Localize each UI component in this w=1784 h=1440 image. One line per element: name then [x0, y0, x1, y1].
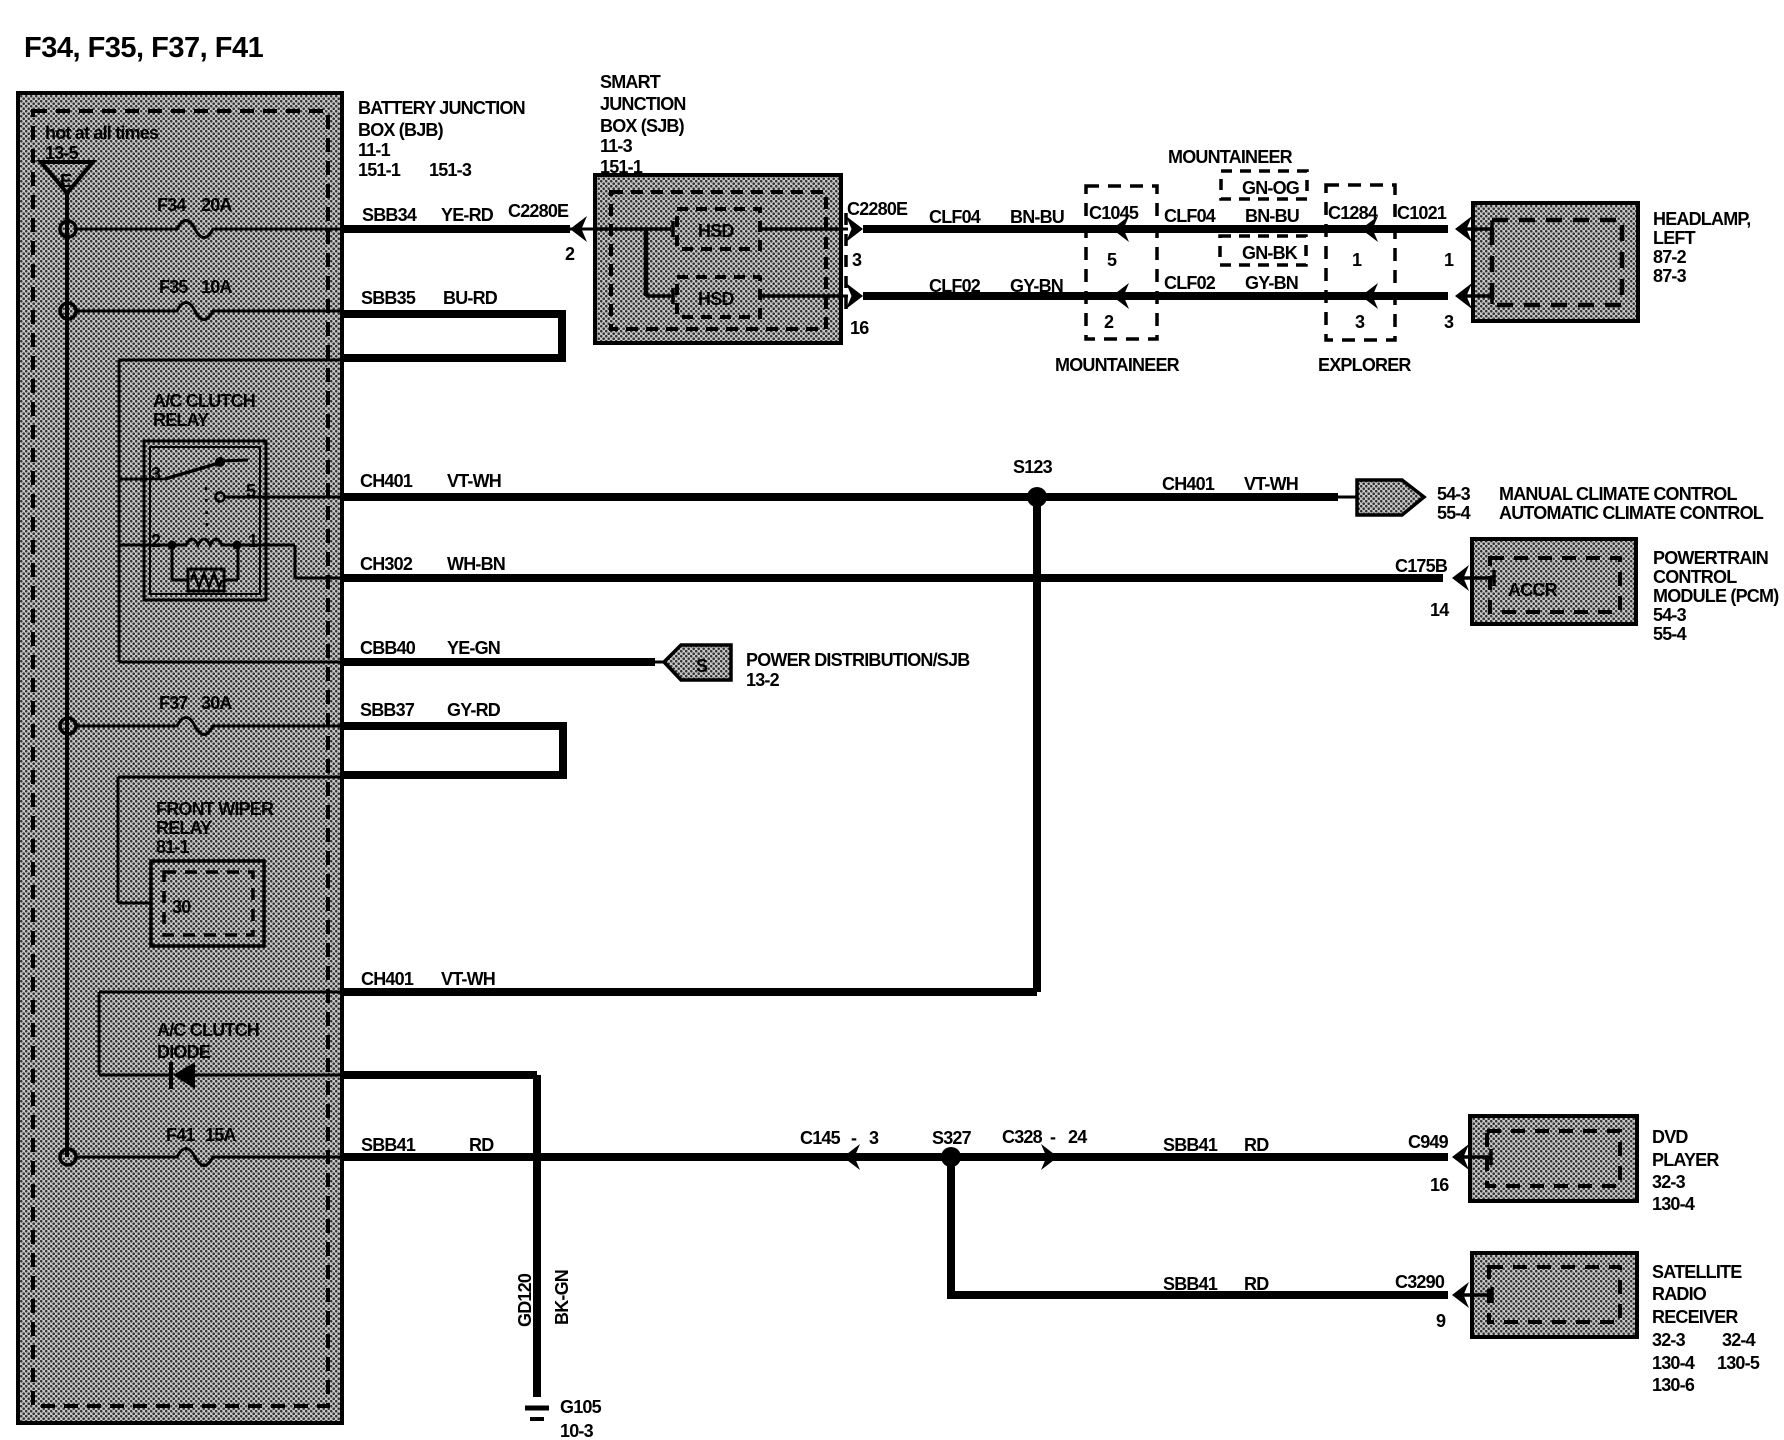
label CLF02 GY-BN (second segment) [1164, 273, 1298, 293]
ground G105 [525, 1397, 602, 1440]
svg-text:10A: 10A [201, 277, 232, 297]
svg-text:GN-OG: GN-OG [1242, 178, 1299, 198]
svg-text:G105: G105 [560, 1397, 602, 1417]
svg-text:YE-GN: YE-GN [447, 638, 500, 658]
wire stub into DVD player [1462, 1149, 1491, 1165]
svg-text:SBB41: SBB41 [361, 1135, 416, 1155]
svg-text:DVD: DVD [1652, 1127, 1688, 1147]
wire CH302 WH-BN (relay coil to PCM) [344, 554, 1469, 620]
svg-text:C3290: C3290 [1395, 1272, 1445, 1292]
svg-text:C175B: C175B [1395, 556, 1448, 576]
svg-text:C1045: C1045 [1089, 203, 1139, 223]
front wiper relay box 30 [151, 861, 264, 946]
hot at all times note [45, 123, 159, 163]
node ring F37 tap [60, 718, 76, 734]
node ring F35 tap [60, 303, 76, 319]
front wiper relay label [156, 799, 274, 857]
svg-text:MODULE (PCM): MODULE (PCM) [1653, 586, 1779, 606]
wire SBB37 GY-RD loop [118, 700, 563, 777]
svg-text:FRONT WIPER: FRONT WIPER [156, 799, 274, 819]
svg-text:POWERTRAIN: POWERTRAIN [1653, 548, 1768, 568]
svg-text:30A: 30A [201, 693, 232, 713]
svg-text:RADIO: RADIO [1652, 1284, 1707, 1304]
svg-text:CBB40: CBB40 [360, 638, 416, 658]
svg-text:F34: F34 [157, 195, 186, 215]
svg-text:RELAY: RELAY [156, 818, 212, 838]
off-page connector to climate control [1338, 480, 1764, 523]
svg-text:24: 24 [1068, 1127, 1087, 1147]
svg-text:SATELLITE: SATELLITE [1652, 1262, 1742, 1282]
svg-text:AUTOMATIC CLIMATE CONTROL: AUTOMATIC CLIMATE CONTROL [1499, 503, 1764, 523]
svg-text:MANUAL CLIMATE CONTROL: MANUAL CLIMATE CONTROL [1499, 484, 1738, 504]
svg-text:A/C CLUTCH: A/C CLUTCH [157, 1020, 259, 1040]
smart junction box (SJB) enclosure [595, 175, 841, 343]
wire SJB internal feed [595, 221, 673, 304]
node ring F41 tap [60, 1149, 76, 1165]
svg-text:130-4: 130-4 [1652, 1194, 1695, 1214]
svg-text:LEFT: LEFT [1653, 228, 1696, 248]
svg-text:130-5: 130-5 [1717, 1353, 1760, 1373]
connector C2280E pin 3 arrow [841, 199, 908, 270]
svg-text:BN-BU: BN-BU [1010, 207, 1064, 227]
relay pin 1 output [237, 531, 344, 578]
svg-text:32-3: 32-3 [1652, 1330, 1686, 1350]
svg-text:SBB41: SBB41 [1163, 1274, 1218, 1294]
wire SBB34 YE-RD [344, 201, 595, 264]
svg-text:EXPLORER: EXPLORER [1318, 355, 1411, 375]
svg-text:81-1: 81-1 [156, 837, 190, 857]
svg-text:9: 9 [1436, 1311, 1446, 1331]
svg-text:151-3: 151-3 [429, 160, 472, 180]
svg-text:BATTERY JUNCTION: BATTERY JUNCTION [358, 98, 525, 118]
SJB label block [600, 72, 686, 177]
svg-text:11-3: 11-3 [600, 136, 633, 156]
connector C328 pin 24 arrow [1002, 1127, 1087, 1170]
svg-text:CH401: CH401 [361, 969, 414, 989]
svg-text:3: 3 [869, 1128, 879, 1148]
svg-text:BOX (SJB): BOX (SJB) [600, 116, 685, 136]
svg-text:SBB41: SBB41 [1163, 1135, 1218, 1155]
connector C145 pin 3 arrow [800, 1128, 879, 1170]
connector C1021 [1397, 203, 1472, 332]
battery junction box (BJB) enclosure [18, 93, 342, 1423]
svg-text:YE-RD: YE-RD [441, 205, 494, 225]
svg-text:BU-RD: BU-RD [443, 288, 498, 308]
connector C1284 (Explorer) [1318, 185, 1411, 375]
fuse F35 10A [76, 277, 344, 320]
svg-text:20A: 20A [201, 195, 232, 215]
svg-text:5: 5 [1107, 250, 1117, 270]
svg-text:2: 2 [1104, 312, 1114, 332]
svg-text:C1284: C1284 [1328, 203, 1378, 223]
splice S123 [1013, 457, 1053, 992]
svg-text:C145: C145 [800, 1128, 841, 1148]
svg-text:11-1: 11-1 [358, 140, 391, 160]
svg-text:3: 3 [151, 464, 161, 484]
svg-text:32-3: 32-3 [1652, 1172, 1686, 1192]
relay pin 5 contact [216, 481, 345, 502]
connector C949 pin 16 arrow [1408, 1132, 1469, 1195]
diode D (A/C clutch diode) [99, 1062, 537, 1089]
svg-text:hot at all times: hot at all times [45, 123, 159, 143]
svg-text:CH401: CH401 [360, 471, 413, 491]
svg-text:3: 3 [852, 250, 862, 270]
svg-text:VT-WH: VT-WH [447, 471, 501, 491]
svg-text:RD: RD [1244, 1274, 1269, 1294]
wire SBB41 RD (BJB to S327) [344, 1135, 1448, 1157]
svg-text:C2280E: C2280E [508, 201, 569, 221]
svg-text:87-2: 87-2 [1653, 247, 1687, 267]
svg-text:VT-WH: VT-WH [441, 969, 495, 989]
connector C1045 (Mountaineer) [1055, 186, 1180, 375]
svg-text:GD120: GD120 [515, 1273, 535, 1327]
node ring F34 tap [60, 221, 76, 237]
svg-text:CLF04: CLF04 [1164, 206, 1216, 226]
svg-text:130-6: 130-6 [1652, 1375, 1695, 1395]
wire CH401 VT-WH (lower run) [99, 969, 1037, 1075]
svg-text:BOX (BJB): BOX (BJB) [358, 120, 444, 140]
connector C3290 pin 9 arrow [1395, 1272, 1469, 1331]
svg-text:F41: F41 [166, 1125, 195, 1145]
svg-text:F34, F35, F37, F41: F34, F35, F37, F41 [24, 32, 264, 64]
A/C clutch diode label [157, 1020, 259, 1062]
svg-text:POWER DISTRIBUTION/SJB: POWER DISTRIBUTION/SJB [746, 650, 970, 670]
svg-text:JUNCTION: JUNCTION [600, 94, 686, 114]
svg-text:CLF02: CLF02 [1164, 273, 1216, 293]
wire CLF02 GY-BN (SJB to headlamp) [863, 276, 1448, 296]
svg-text:DIODE: DIODE [157, 1042, 211, 1062]
svg-text:13-2: 13-2 [746, 670, 780, 690]
svg-text:SBB34: SBB34 [362, 205, 417, 225]
splice S327 [932, 1128, 972, 1167]
bus wire (hot feed) [65, 191, 69, 1157]
svg-text:32-4: 32-4 [1722, 1330, 1756, 1350]
fuse F37 30A [76, 693, 344, 735]
svg-text:3: 3 [1444, 312, 1454, 332]
wire GN-BK (Mountaineer option) [1220, 236, 1306, 265]
wire SBB35 BU-RD loop [119, 288, 562, 360]
fuse F41 15A [76, 1125, 344, 1166]
A/C clutch relay label [153, 391, 255, 430]
wire GD120 BK-GN ground leg [515, 1075, 572, 1397]
svg-text:HSD: HSD [698, 221, 734, 241]
HSD driver upper [677, 209, 760, 249]
svg-text:16: 16 [1430, 1175, 1449, 1195]
svg-text:A/C CLUTCH: A/C CLUTCH [153, 391, 255, 411]
svg-text:14: 14 [1430, 600, 1449, 620]
wire CBB40 YE-GN [344, 638, 666, 662]
svg-text:2: 2 [151, 531, 161, 551]
svg-text:1: 1 [248, 531, 258, 551]
svg-text:MOUNTAINEER: MOUNTAINEER [1168, 147, 1293, 167]
svg-text:30: 30 [172, 897, 191, 917]
fuse F34 20A [76, 195, 344, 238]
svg-text:151-1: 151-1 [358, 160, 401, 180]
svg-text:55-4: 55-4 [1437, 503, 1471, 523]
svg-text:HSD: HSD [698, 289, 734, 309]
connector C2280E pin 16 arrow [841, 283, 869, 338]
relay coil suppression resistor [172, 545, 238, 591]
svg-text:C1021: C1021 [1397, 203, 1447, 223]
wire stub into PCM [1462, 570, 1494, 586]
svg-text:55-4: 55-4 [1653, 624, 1687, 644]
svg-text:CH401: CH401 [1162, 474, 1215, 494]
svg-text:-: - [851, 1128, 857, 1148]
svg-text:BN-BU: BN-BU [1245, 206, 1299, 226]
front wiper relay feed [118, 777, 151, 903]
relay pin 2 and coil [147, 531, 242, 551]
svg-text:1: 1 [1352, 250, 1362, 270]
satellite radio receiver label block [1652, 1262, 1760, 1395]
HSD driver lower [677, 277, 760, 317]
svg-text:151-1: 151-1 [600, 157, 643, 177]
svg-text:S327: S327 [932, 1128, 972, 1148]
svg-text:HEADLAMP,: HEADLAMP, [1653, 209, 1750, 229]
A/C clutch relay circuit frame [119, 360, 344, 662]
powertrain control module box [1472, 539, 1636, 624]
DVD player label block [1652, 1127, 1719, 1214]
svg-text:GN-BK: GN-BK [1242, 243, 1298, 263]
svg-text:15A: 15A [205, 1125, 236, 1145]
relay K (A/C clutch relay) box [144, 441, 266, 600]
svg-text:SMART: SMART [600, 72, 661, 92]
headlamp label block [1653, 209, 1750, 286]
svg-text:CH302: CH302 [360, 554, 413, 574]
svg-text:C2280E: C2280E [847, 199, 908, 219]
svg-text:BK-GN: BK-GN [552, 1270, 572, 1325]
svg-text:GY-RD: GY-RD [447, 700, 501, 720]
svg-text:1: 1 [1444, 250, 1454, 270]
relay pin 3 and switch arm [147, 457, 248, 484]
wire SBB41 RD (S327 to satellite receiver) [947, 1157, 1448, 1295]
PCM label block [1653, 548, 1779, 644]
svg-text:54-3: 54-3 [1653, 605, 1687, 625]
svg-text:CONTROL: CONTROL [1653, 567, 1737, 587]
wire stub into satellite receiver [1462, 1287, 1492, 1303]
svg-text:RECEIVER: RECEIVER [1652, 1307, 1738, 1327]
svg-text:SBB37: SBB37 [360, 700, 415, 720]
svg-text:PLAYER: PLAYER [1652, 1150, 1719, 1170]
svg-text:54-3: 54-3 [1437, 484, 1471, 504]
svg-text:16: 16 [850, 318, 869, 338]
wire HSD outputs to SJB edge [760, 229, 841, 296]
svg-text:VT-WH: VT-WH [1244, 474, 1298, 494]
svg-text:2: 2 [565, 244, 575, 264]
svg-text:E: E [60, 171, 72, 191]
svg-text:C949: C949 [1408, 1132, 1449, 1152]
svg-text:F37: F37 [159, 693, 188, 713]
svg-text:CLF04: CLF04 [929, 207, 981, 227]
svg-text:10-3: 10-3 [560, 1421, 594, 1440]
power symbol E (triangle) [41, 162, 93, 193]
svg-text:87-3: 87-3 [1653, 266, 1687, 286]
svg-text:ACCR: ACCR [1508, 580, 1558, 600]
satellite radio receiver box [1472, 1253, 1637, 1337]
svg-text:S: S [696, 656, 708, 676]
svg-text:MOUNTAINEER: MOUNTAINEER [1055, 355, 1180, 375]
label CH401 VT-WH (right segment) [1162, 474, 1298, 494]
relay linkage dashes [206, 487, 207, 532]
svg-text:RD: RD [1244, 1135, 1269, 1155]
svg-text:3: 3 [1355, 312, 1365, 332]
svg-text:RELAY: RELAY [153, 410, 209, 430]
svg-text:SBB35: SBB35 [361, 288, 416, 308]
wire CLF04 BN-BU (SJB to headlamp) [863, 207, 1448, 229]
headlamp left box [1473, 203, 1638, 321]
svg-text:RD: RD [469, 1135, 494, 1155]
svg-text:130-4: 130-4 [1652, 1353, 1695, 1373]
off-page connector S to power distribution [664, 645, 970, 690]
svg-text:C328: C328 [1002, 1127, 1043, 1147]
DVD player box [1470, 1116, 1637, 1201]
wire CH401 VT-WH (relay to S123) [344, 471, 1338, 497]
wire GN-OG (Mountaineer option) [1221, 171, 1307, 199]
svg-text:-: - [1050, 1127, 1056, 1147]
svg-text:S123: S123 [1013, 457, 1053, 477]
svg-text:F35: F35 [159, 277, 188, 297]
wire stubs into headlamp [1466, 221, 1492, 304]
label CLF04 BN-BU (second segment) [1164, 206, 1299, 226]
connector C2280E dashed line [844, 213, 848, 312]
BJB label block [358, 98, 525, 180]
svg-text:GY-BN: GY-BN [1245, 273, 1298, 293]
svg-text:WH-BN: WH-BN [447, 554, 505, 574]
label SBB41 RD (to DVD) [1163, 1135, 1269, 1155]
